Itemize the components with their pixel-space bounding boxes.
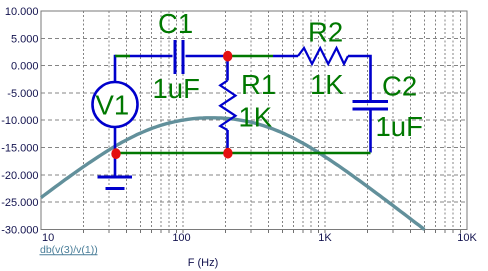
svg-text:-25.000: -25.000: [1, 197, 38, 209]
svg-text:C2: C2: [382, 71, 417, 102]
svg-text:1uF: 1uF: [153, 73, 200, 104]
svg-text:1K: 1K: [310, 69, 344, 100]
svg-text:10K: 10K: [457, 232, 477, 244]
svg-text:10: 10: [42, 232, 54, 244]
svg-text:1K: 1K: [318, 232, 332, 244]
svg-text:-5.000: -5.000: [7, 88, 38, 100]
svg-text:-20.000: -20.000: [1, 170, 38, 182]
svg-text:0.000: 0.000: [11, 61, 39, 73]
svg-text:F (Hz): F (Hz): [188, 257, 219, 269]
svg-text:R2: R2: [308, 17, 343, 48]
svg-text:C1: C1: [158, 8, 193, 39]
svg-text:5.000: 5.000: [11, 33, 39, 45]
svg-text:-10.000: -10.000: [1, 115, 38, 127]
svg-text:10.000: 10.000: [5, 6, 39, 18]
svg-text:db(v(3)/v(1)): db(v(3)/v(1)): [40, 244, 98, 256]
svg-text:-30.000: -30.000: [1, 225, 38, 237]
svg-text:100: 100: [172, 232, 190, 244]
svg-text:1K: 1K: [239, 102, 273, 133]
svg-text:1uF: 1uF: [376, 111, 423, 142]
svg-text:-15.000: -15.000: [1, 143, 38, 155]
svg-text:V1: V1: [96, 90, 130, 121]
svg-text:R1: R1: [241, 69, 276, 100]
